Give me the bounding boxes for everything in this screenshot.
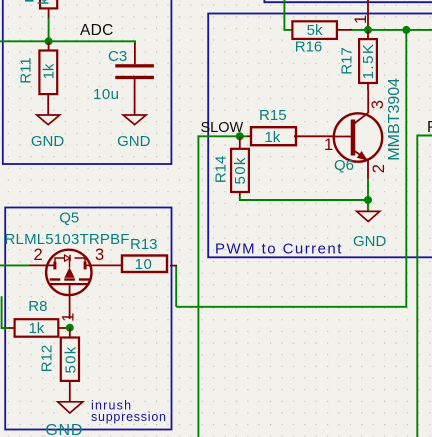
svg-text:1.5K: 1.5K — [360, 43, 377, 80]
pin 2 (source) — [29, 264, 54, 266]
pin from above — [367, 0, 369, 30]
drain contact bar — [84, 262, 87, 270]
svg-text:10: 10 — [135, 256, 153, 273]
ground GND (Q6 emitter) — [353, 211, 387, 250]
svg-text:R13: R13 — [130, 236, 158, 253]
resistor body R8 — [15, 319, 59, 337]
svg-text:MMBT3904: MMBT3904 — [386, 78, 403, 161]
node junction emitter — [364, 196, 372, 204]
svg-text:PWM to Current: PWM to Current — [215, 241, 343, 258]
capacitor C3 — [93, 43, 154, 115]
resistor R8 — [9, 298, 70, 337]
ground GND (under C3) — [117, 115, 151, 150]
svg-text:50k: 50k — [62, 345, 79, 373]
wire net R16-R17 — [352, 29, 432, 31]
pin 2 — [239, 192, 241, 196]
svg-text:R11: R11 — [18, 57, 35, 83]
pin — [48, 8, 50, 19]
pin 2 — [367, 83, 369, 90]
emitter arrow — [357, 151, 368, 161]
svg-text:PWM: PWM — [427, 119, 432, 136]
svg-text:10u: 10u — [93, 86, 120, 103]
svg-text:5k: 5k — [307, 22, 323, 39]
channel segment left — [50, 278, 61, 280]
node junction R17 top — [364, 26, 372, 34]
pin from top (off-sheet component), pin 1 — [352, 0, 370, 30]
node junction right riser — [402, 26, 410, 34]
channel segment right — [79, 278, 90, 280]
svg-text:GND: GND — [31, 133, 65, 150]
svg-text:C3: C3 — [108, 48, 127, 65]
resistor R17 — [339, 30, 377, 90]
resistor body R12 — [61, 338, 79, 381]
svg-text:1: 1 — [324, 136, 333, 154]
pin 1 — [367, 30, 369, 39]
svg-text:R17: R17 — [339, 47, 356, 75]
text sliver (cut label above top edge) — [25, 0, 34, 2]
ground triangle — [58, 402, 83, 413]
svg-text:3: 3 — [369, 100, 387, 109]
resistor R15 — [247, 107, 335, 146]
wire into R16 — [284, 0, 292, 30]
resistor R16 — [292, 21, 352, 55]
pin 2 — [337, 29, 352, 31]
svg-text:50k: 50k — [232, 156, 249, 184]
sheet box upper-right partial — [264, 0, 432, 2]
svg-text:R14: R14 — [212, 156, 229, 184]
transistor circle — [46, 250, 91, 295]
pin 1 — [48, 41, 50, 50]
pin 2 — [47, 94, 49, 115]
source contact bar — [53, 262, 56, 270]
ground triangle — [123, 115, 146, 125]
wire R8 left — [2, 296, 9, 328]
ground triangle — [37, 115, 60, 125]
svg-text:k: k — [36, 0, 53, 5]
wire Q5 drain to R13 — [104, 264, 122, 266]
pin 3 (drain) — [87, 264, 104, 266]
svg-text:GND: GND — [353, 233, 387, 250]
resistor R14 — [212, 136, 249, 196]
svg-text:GND: GND — [117, 133, 151, 150]
pin R13 right — [170, 265, 177, 267]
resistor R? (partial, top edge) — [36, 0, 58, 19]
wire R14 to emitter — [240, 196, 368, 200]
base pin — [334, 136, 351, 138]
pin 2 — [134, 79, 136, 115]
svg-text:R15: R15 — [259, 107, 287, 124]
transistor Q5 RLML5103TRPBF — [5, 210, 130, 322]
substrate arrow — [64, 267, 74, 278]
wire emitter down — [367, 179, 369, 211]
resistor R13 — [122, 236, 167, 273]
pin 1 — [9, 327, 15, 329]
body diode cathode bar — [69, 255, 71, 262]
svg-text:ADC: ADC — [80, 22, 114, 39]
emitter pin — [367, 160, 369, 179]
transistor Q6 MMBT3904 — [324, 78, 403, 179]
svg-text:1: 1 — [352, 15, 370, 24]
svg-text:Q6: Q6 — [334, 157, 354, 174]
capacitor plate bottom — [115, 76, 154, 79]
gate bar — [50, 283, 90, 285]
sheet box PWM to Current — [208, 14, 432, 258]
resistor body R13 — [122, 256, 167, 273]
ground triangle — [357, 211, 380, 221]
svg-text:R8: R8 — [28, 298, 47, 315]
capacitor plate top — [115, 64, 154, 67]
pin 1 — [134, 43, 136, 64]
resistor R11 — [18, 41, 58, 115]
resistor body R17 — [359, 39, 377, 83]
body diode triangle — [65, 255, 71, 261]
svg-text:1k: 1k — [41, 63, 58, 79]
svg-text:3: 3 — [95, 246, 104, 264]
svg-text:1: 1 — [60, 313, 78, 322]
pin 2 — [58, 327, 70, 329]
emitter diagonal — [353, 150, 368, 160]
resistor body R15 — [251, 127, 296, 145]
node junction gate/R8/R12 — [66, 324, 74, 332]
sheet box bottom-left — [5, 208, 171, 430]
wire riser to R13 — [175, 265, 177, 307]
pin 2 to Q6 base — [294, 135, 335, 137]
svg-text:R16: R16 — [295, 39, 323, 56]
pin 1 — [69, 328, 71, 337]
svg-text:suppression: suppression — [91, 410, 167, 424]
node ADC junction — [45, 37, 53, 45]
node junction SLOW/R14 — [236, 132, 244, 140]
resistor R12 — [38, 328, 79, 402]
ground GND (under R11) — [31, 115, 65, 150]
pin 1 — [247, 135, 252, 137]
channel segment mid — [64, 278, 75, 280]
wire P net — [417, 136, 432, 437]
resistor body R11 — [39, 51, 57, 95]
pin 1 (gate) — [69, 285, 71, 319]
body-diode link right — [75, 258, 86, 262]
svg-text:RLML5103TRPBF: RLML5103TRPBF — [5, 231, 130, 248]
wire Q5 source to left — [0, 264, 29, 266]
ground GND (R12) — [45, 402, 83, 437]
resistor body (clipped) — [40, 0, 57, 8]
svg-text:R12: R12 — [38, 345, 55, 373]
wire right riser — [176, 30, 406, 307]
svg-text:2: 2 — [370, 164, 388, 173]
wire SLOW net — [198, 136, 247, 437]
svg-text:1k: 1k — [264, 129, 280, 146]
base bar — [351, 120, 356, 156]
pin 1 — [239, 136, 241, 149]
substrate link — [69, 258, 71, 268]
resistor body R16 — [292, 21, 337, 39]
transistor circle — [334, 113, 382, 161]
wire horizontal ADC — [0, 41, 135, 44]
sheet box top-left — [3, 0, 172, 164]
collector pin — [367, 90, 369, 113]
wire vertical to junction — [48, 18, 50, 41]
collector diagonal — [353, 113, 368, 125]
svg-text:1k: 1k — [28, 320, 44, 337]
svg-text:Q5: Q5 — [59, 210, 79, 227]
svg-text:GND: GND — [45, 422, 83, 437]
svg-text:2: 2 — [34, 246, 43, 264]
body-diode link left — [55, 258, 65, 262]
pin 2 — [69, 380, 71, 401]
resistor body R14 — [231, 149, 249, 192]
wire ADC net — [0, 18, 135, 44]
